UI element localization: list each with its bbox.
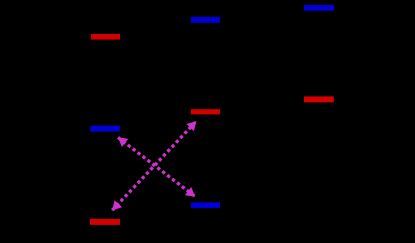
energy level M2 (red, middle) [191,109,220,114]
wire: dashed shaft of arrow X1 [118,137,195,196]
energy level R1 (blue, right top) [304,5,334,11]
energy level M1 (blue, middle top) [191,17,220,23]
correlation arrow X1 (dashed, blue L2 to blue M3) [118,137,195,196]
wire: dashed shaft of arrow X2 [112,121,196,210]
arrowhead X2 lower-left tip [112,200,122,210]
energy level L3 (red, left bottom) [90,219,120,225]
energy level L2 (blue, left lower) [90,126,120,132]
energy level M3 (blue, middle bottom) [191,202,220,208]
energy level L1 (red, left upper column) [91,34,120,40]
correlation arrow X2 (dashed, red L3 to red M2) [112,121,196,210]
arrowhead X2 upper-right tip [186,121,196,131]
energy level R2 (red, right) [304,96,334,102]
arrowhead X1 upper-left tip [118,137,128,147]
arrowhead X1 lower-right tip [185,187,195,197]
